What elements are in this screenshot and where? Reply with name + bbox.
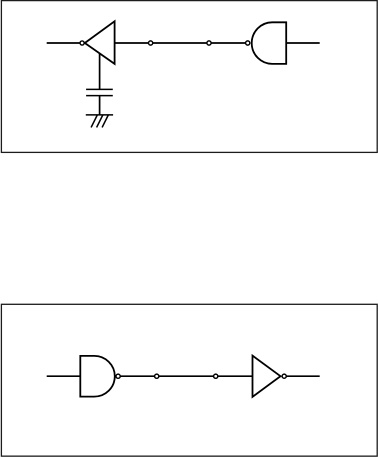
wire: node D to inverter U4 — [218, 375, 253, 377]
wire: node B to U2 input bubble — [211, 42, 245, 44]
inverter U1 triangle (pointing left) — [85, 21, 115, 64]
AND gate U2 body (facing left) — [252, 22, 286, 64]
inverter U4 output bubble — [282, 374, 286, 378]
wire: top circuit left input — [47, 42, 80, 44]
wire: U1 base to node A — [115, 42, 149, 44]
node D (bottom circuit, right junction) — [214, 374, 218, 378]
node C (bottom circuit, left junction) — [155, 374, 159, 378]
capacitor C1 — [86, 89, 113, 95]
inverter U4 triangle (pointing right) — [253, 356, 281, 397]
node A (top circuit, left junction) — [149, 41, 153, 45]
AND gate U2 input bubble — [246, 41, 250, 45]
wire: node C to node D — [159, 375, 214, 377]
wire: node A to node B — [153, 42, 207, 44]
wire: bottom circuit left input — [47, 375, 81, 377]
node B (top circuit, right junction) — [207, 41, 211, 45]
wire: C1 to ground — [99, 96, 101, 115]
ground — [86, 115, 113, 128]
wire: U1 lower edge to capacitor C1 — [99, 53, 101, 89]
wire: U3 bubble to node C — [120, 375, 154, 377]
wire: U2 output — [286, 42, 320, 44]
inverter U1 bubble — [80, 41, 84, 45]
NAND gate U3 output bubble — [116, 374, 120, 378]
NAND gate U3 body — [80, 356, 115, 397]
wire: U4 output — [286, 375, 319, 377]
